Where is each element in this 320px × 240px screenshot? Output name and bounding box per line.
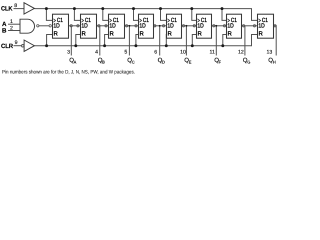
svg-text:12: 12 — [238, 49, 244, 55]
svg-text:A: A — [74, 59, 77, 64]
svg-text:1D: 1D — [197, 22, 204, 29]
svg-text:R: R — [110, 30, 115, 37]
svg-text:R: R — [140, 30, 145, 37]
svg-text:1D: 1D — [167, 22, 174, 29]
svg-text:1D: 1D — [139, 22, 146, 29]
svg-text:R: R — [168, 30, 173, 37]
svg-text:R: R — [259, 30, 264, 37]
svg-text:9: 9 — [15, 40, 18, 46]
svg-text:R: R — [82, 30, 87, 37]
svg-text:8: 8 — [14, 3, 17, 9]
svg-text:E: E — [189, 59, 192, 64]
svg-text:R: R — [54, 30, 59, 37]
svg-text:B: B — [102, 59, 105, 64]
svg-text:1D: 1D — [53, 22, 60, 29]
svg-text:10: 10 — [180, 49, 186, 55]
svg-text:R: R — [228, 30, 233, 37]
svg-text:C: C — [132, 59, 135, 64]
svg-text:D: D — [162, 59, 165, 64]
svg-text:G: G — [247, 59, 250, 64]
svg-text:R: R — [198, 30, 203, 37]
svg-text:CLK: CLK — [1, 5, 13, 12]
svg-text:11: 11 — [210, 49, 215, 55]
svg-text:1: 1 — [10, 19, 13, 25]
svg-text:H: H — [273, 59, 276, 64]
svg-text:1D: 1D — [258, 22, 265, 29]
svg-text:4: 4 — [95, 49, 98, 55]
svg-text:5: 5 — [124, 49, 127, 55]
svg-text:1D: 1D — [81, 22, 88, 29]
svg-text:13: 13 — [267, 49, 273, 55]
svg-text:CLR: CLR — [1, 43, 14, 50]
svg-text:3: 3 — [67, 49, 70, 55]
svg-text:6: 6 — [154, 49, 157, 55]
svg-text:2: 2 — [10, 26, 13, 32]
svg-text:1D: 1D — [109, 22, 116, 29]
svg-text:B: B — [2, 27, 7, 34]
svg-text:Pin numbers shown are for the: Pin numbers shown are for the D, J, N, N… — [2, 70, 135, 76]
svg-text:1D: 1D — [227, 22, 234, 29]
